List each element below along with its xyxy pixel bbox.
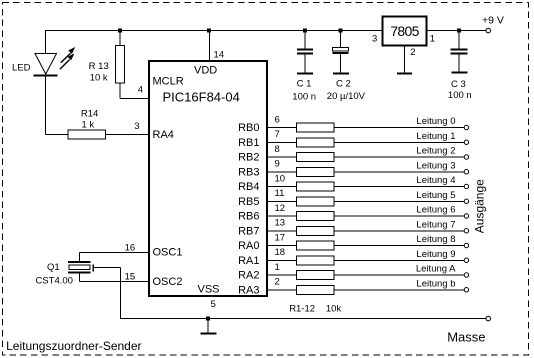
svg-text:Leitung 6: Leitung 6 (416, 205, 455, 216)
svg-text:16: 16 (125, 243, 136, 254)
svg-text:15: 15 (125, 272, 136, 283)
svg-text:7805: 7805 (390, 23, 419, 39)
svg-text:Masse: Masse (447, 329, 485, 344)
svg-text:8: 8 (275, 144, 280, 155)
svg-text:20 µ/10V: 20 µ/10V (327, 91, 366, 102)
svg-text:Leitung A: Leitung A (416, 264, 456, 275)
svg-text:2: 2 (410, 47, 415, 58)
svg-text:MCLR: MCLR (153, 76, 184, 88)
svg-text:RB2: RB2 (238, 152, 259, 164)
svg-text:Leitung 2: Leitung 2 (416, 146, 455, 157)
svg-text:Leitung 0: Leitung 0 (416, 116, 455, 127)
svg-text:6: 6 (275, 114, 280, 125)
svg-text:RA1: RA1 (238, 255, 259, 267)
svg-text:R14: R14 (81, 109, 98, 120)
svg-text:OSC2: OSC2 (153, 276, 183, 288)
svg-text:12: 12 (275, 203, 286, 214)
svg-text:14: 14 (214, 50, 225, 61)
svg-text:RA4: RA4 (153, 129, 174, 141)
svg-text:R1-12: R1-12 (289, 304, 315, 315)
svg-text:RA3: RA3 (238, 284, 259, 296)
svg-text:Q1: Q1 (47, 262, 60, 273)
svg-text:9: 9 (275, 159, 280, 170)
svg-text:RA0: RA0 (238, 240, 259, 252)
svg-text:Leitung 4: Leitung 4 (416, 175, 455, 186)
svg-text:RB4: RB4 (238, 181, 259, 193)
svg-text:RB5: RB5 (238, 196, 259, 208)
svg-text:1: 1 (275, 262, 280, 273)
svg-text:13: 13 (275, 218, 286, 229)
svg-text:10 k: 10 k (90, 72, 108, 83)
svg-text:4: 4 (138, 85, 143, 96)
svg-text:10k: 10k (326, 304, 342, 315)
svg-text:C 1: C 1 (297, 79, 312, 90)
svg-text:2: 2 (275, 277, 280, 288)
svg-text:C 3: C 3 (451, 79, 466, 90)
svg-text:VDD: VDD (194, 65, 217, 77)
svg-text:LED: LED (12, 63, 31, 74)
svg-text:CST4.00: CST4.00 (35, 276, 73, 287)
svg-text:1: 1 (430, 33, 435, 44)
svg-text:PIC16F84-04: PIC16F84-04 (163, 90, 240, 105)
svg-text:RB3: RB3 (238, 166, 259, 178)
svg-text:Leitung 7: Leitung 7 (416, 219, 455, 230)
svg-text:Leitungszuordner-Sender: Leitungszuordner-Sender (6, 339, 141, 353)
svg-text:RB6: RB6 (238, 211, 259, 223)
svg-text:11: 11 (275, 188, 285, 199)
svg-text:7: 7 (275, 129, 280, 140)
svg-text:+9 V: +9 V (482, 14, 504, 26)
svg-text:RA2: RA2 (238, 270, 259, 282)
svg-text:100 n: 100 n (292, 91, 316, 102)
svg-text:RB7: RB7 (238, 225, 259, 237)
svg-text:Leitung 8: Leitung 8 (416, 234, 455, 245)
svg-text:Leitung 1: Leitung 1 (416, 131, 455, 142)
svg-text:RB0: RB0 (238, 122, 259, 134)
svg-text:10: 10 (275, 173, 286, 184)
svg-text:18: 18 (275, 247, 286, 258)
svg-text:1 k: 1 k (81, 119, 94, 130)
svg-text:3: 3 (134, 121, 139, 132)
svg-text:Leitung 5: Leitung 5 (416, 190, 455, 201)
svg-text:OSC1: OSC1 (153, 247, 183, 259)
svg-text:Ausgänge: Ausgänge (473, 179, 487, 233)
svg-text:Leitung b: Leitung b (416, 278, 455, 289)
svg-text:Leitung 9: Leitung 9 (416, 249, 455, 260)
svg-text:Leitung 3: Leitung 3 (416, 160, 455, 171)
svg-text:C 2: C 2 (336, 79, 351, 90)
svg-text:100 n: 100 n (448, 90, 472, 101)
svg-text:RB1: RB1 (238, 137, 259, 149)
svg-text:R 13: R 13 (89, 61, 109, 72)
svg-text:3: 3 (372, 33, 377, 44)
svg-text:17: 17 (275, 232, 286, 243)
svg-text:5: 5 (211, 299, 216, 310)
svg-text:VSS: VSS (198, 284, 220, 296)
